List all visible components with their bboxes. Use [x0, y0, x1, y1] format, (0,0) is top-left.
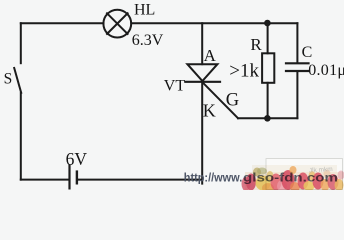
thyristor VT cathode lead to bottom rail — [201, 82, 203, 184]
battery 6V long plate — [68, 166, 70, 189]
svg-text:A: A — [204, 46, 217, 65]
node junction top (resistor branch) — [264, 20, 271, 27]
thyristor VT triangle — [187, 64, 217, 81]
svg-text:S: S — [4, 71, 13, 88]
watermark colorful figures — [242, 165, 344, 193]
wire left vertical lower (switch to bottom rail) — [20, 93, 22, 180]
wire right vertical (top rail corner down to capacitor) — [296, 23, 298, 62]
resistor R body — [262, 53, 274, 83]
svg-text:http://www.: http://www. — [184, 170, 243, 184]
switch S blade — [14, 68, 21, 93]
wire gate rail horizontal — [238, 117, 297, 119]
wire bottom rail left of battery — [21, 179, 69, 181]
svg-text:VT: VT — [164, 77, 186, 94]
node junction bottom (gate rail) — [264, 115, 271, 122]
svg-text:G: G — [226, 91, 239, 111]
svg-text:>1k: >1k — [229, 61, 259, 82]
svg-text:HL: HL — [134, 2, 155, 19]
svg-text:6.3V: 6.3V — [132, 32, 164, 49]
svg-text:C: C — [302, 44, 313, 61]
thyristor VT anode lead — [201, 23, 203, 64]
wire top rail right segment — [131, 22, 297, 24]
battery 6V short plate — [76, 172, 78, 184]
resistor R bottom lead — [267, 83, 269, 118]
capacitor C top plate — [286, 62, 309, 64]
lamp HL — [103, 10, 131, 38]
wire bottom rail right of battery — [78, 179, 202, 181]
svg-text:6V: 6V — [66, 149, 88, 169]
wire top rail left segment — [21, 22, 104, 24]
svg-text:0.01μ: 0.01μ — [308, 62, 344, 79]
capacitor C bottom lead — [296, 72, 298, 118]
svg-text:R: R — [250, 35, 262, 54]
capacitor C bottom plate — [286, 70, 309, 72]
wire left vertical upper (top rail to switch) — [20, 23, 22, 63]
watermark logo box — [266, 159, 343, 190]
thyristor VT gate lead diagonal — [203, 82, 239, 118]
thyristor VT cathode bar — [185, 81, 220, 83]
svg-text:K: K — [203, 100, 216, 120]
resistor R top lead — [267, 23, 269, 53]
